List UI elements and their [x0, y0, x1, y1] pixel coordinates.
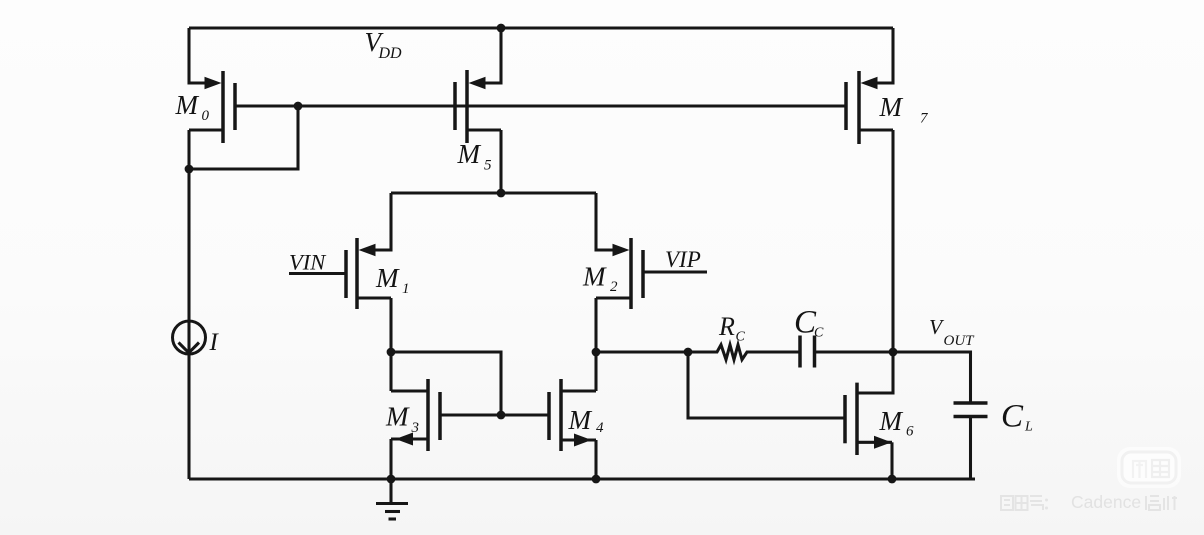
wire VDD top rail	[189, 26, 893, 29]
svg-text:OUT: OUT	[944, 333, 976, 349]
node M4 ground junction	[592, 475, 601, 484]
transistor M7	[846, 28, 893, 144]
current source I	[173, 321, 206, 354]
svg-text:VIP: VIP	[665, 247, 701, 272]
node VDD/M5 junction	[497, 24, 506, 33]
wire M2 drain to RC node	[596, 350, 688, 353]
svg-text:I: I	[209, 329, 220, 356]
wire M2 gate lead with underline	[643, 270, 707, 273]
wire M3 source to ground	[389, 439, 392, 479]
wire node to M6 gate	[688, 352, 845, 418]
wire M1 drain to mirror gate	[391, 352, 501, 415]
wire M0 drain down to diode loop	[187, 130, 190, 169]
svg-text:1: 1	[402, 281, 410, 297]
transistor M0	[189, 28, 235, 143]
transistor M4	[549, 379, 596, 451]
label M0	[175, 90, 210, 124]
svg-text:M: M	[568, 405, 593, 435]
node M6 ground junction	[888, 475, 897, 484]
transistor M3	[391, 379, 440, 451]
label RC	[718, 312, 746, 345]
wire M2 drain down	[594, 298, 597, 391]
wire M3-M4 gate line	[440, 413, 549, 416]
svg-text:VIN: VIN	[289, 250, 327, 275]
label M6	[879, 406, 915, 440]
wire ground rail	[189, 477, 975, 480]
node M0 drain/loop junction	[185, 165, 194, 174]
svg-text:7: 7	[920, 111, 929, 127]
wire diff pair tail	[391, 191, 596, 194]
label M7	[879, 92, 930, 127]
svg-text:DD: DD	[378, 45, 403, 62]
svg-text:C: C	[814, 326, 824, 341]
label M5	[457, 139, 493, 174]
capacitor CC	[800, 336, 893, 368]
node M2 drain junction	[592, 348, 601, 357]
svg-text:M: M	[879, 406, 904, 436]
svg-text:5: 5	[484, 158, 492, 174]
wire output to CL	[893, 352, 971, 402]
node M0 gate junction	[294, 102, 303, 111]
wire M1 drain down	[389, 298, 392, 391]
node mirror gate junction	[497, 411, 506, 420]
node M1 drain junction	[387, 348, 396, 357]
node output junction	[889, 348, 898, 357]
svg-text:6: 6	[906, 424, 914, 440]
svg-text:M: M	[385, 402, 410, 432]
wire M4 source to ground	[594, 440, 597, 479]
svg-text:M: M	[457, 139, 482, 169]
svg-text:Cadence: Cadence	[1071, 492, 1141, 512]
label VDD	[365, 27, 403, 62]
node tail junction	[497, 189, 506, 198]
ground	[376, 479, 408, 519]
svg-text:R: R	[718, 312, 735, 341]
label M2	[582, 262, 618, 296]
watermark text	[1001, 492, 1177, 512]
svg-text:M: M	[175, 90, 200, 120]
watermark logo	[1117, 447, 1181, 488]
svg-text:C: C	[736, 330, 746, 345]
node M3 ground junction	[387, 475, 396, 484]
transistor M5	[455, 28, 501, 143]
node RC input junction	[684, 348, 693, 357]
transistor M2	[596, 193, 643, 309]
svg-text:M: M	[375, 263, 400, 293]
transistor M1	[346, 193, 391, 309]
svg-text:M: M	[879, 92, 904, 122]
wire diode connection loop	[189, 106, 298, 169]
label CC	[794, 305, 824, 341]
svg-text:L: L	[1024, 420, 1033, 435]
wire left branch to current source	[187, 169, 190, 479]
wire M7 drain to output node	[891, 130, 894, 352]
svg-text:M: M	[582, 262, 607, 292]
wire M1 gate lead with underline	[289, 272, 346, 275]
wire M5 drain to tail node	[499, 130, 502, 193]
svg-text:3: 3	[411, 420, 420, 436]
svg-text:0: 0	[202, 108, 210, 124]
label VOUT	[929, 315, 975, 349]
label M4	[568, 405, 605, 436]
label CL	[1001, 399, 1033, 435]
svg-text:4: 4	[596, 420, 604, 436]
wire gate bus M0-M5-M7	[235, 104, 846, 107]
label M3	[385, 402, 419, 437]
wire M6 source to ground	[890, 442, 893, 479]
resistor RC	[688, 345, 800, 360]
svg-text:C: C	[1001, 399, 1024, 435]
capacitor CL	[954, 403, 988, 479]
transistor M6	[845, 352, 893, 455]
label M1	[375, 263, 410, 297]
svg-text:2: 2	[610, 279, 618, 295]
